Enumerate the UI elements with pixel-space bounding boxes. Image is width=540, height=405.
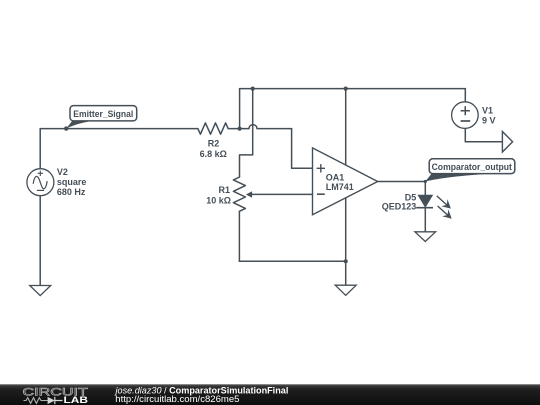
V2 plus mark — [38, 171, 43, 176]
op-amp minus sign — [317, 193, 325, 195]
svg-text:LAB: LAB — [64, 395, 89, 405]
ground for V2 — [30, 286, 51, 296]
svg-text:R2: R2 — [208, 138, 220, 148]
net flag Emitter_Signal box — [70, 106, 137, 121]
wire R1 wiper to minus input — [251, 193, 313, 195]
net flag Emitter_Signal tail — [66, 121, 94, 129]
svg-text:R1: R1 — [218, 185, 230, 195]
wire LED bottom lead — [424, 208, 426, 232]
svg-text:square: square — [57, 177, 87, 187]
wire LED top lead — [424, 182, 426, 196]
svg-text:6.8 kΩ: 6.8 kΩ — [200, 149, 227, 159]
LED D5 triangle — [418, 195, 432, 207]
resistor R1 (pot) — [233, 177, 245, 211]
potentiometer wiper arrow — [246, 191, 252, 197]
net flag Comparator_output tail — [425, 174, 489, 182]
wire top rail — [240, 88, 466, 90]
output flag triangle — [502, 132, 512, 153]
wire main horizontal with hop — [40, 125, 291, 129]
wire R1 bottom lead — [238, 211, 240, 261]
node bottom rail dot — [344, 259, 348, 263]
V2 minus mark — [37, 189, 44, 191]
wire rail drop to R2 junction — [239, 89, 241, 129]
svg-text:Emitter_Signal: Emitter_Signal — [73, 109, 133, 119]
op-amp OA1 body — [313, 148, 378, 215]
V1 plus sign — [461, 106, 470, 115]
ground for LED — [415, 232, 436, 242]
wire op-amp output — [378, 181, 426, 183]
ground mid (op-amp) — [335, 285, 356, 295]
resistor R2 — [198, 123, 228, 134]
node Emitter_Signal dot — [64, 126, 68, 130]
svg-text:LM741: LM741 — [326, 182, 354, 192]
svg-text:10 kΩ: 10 kΩ — [206, 195, 231, 205]
wire op-amp plus input — [292, 129, 313, 169]
wire V2 bottom lead — [39, 196, 41, 286]
V1 minus sign — [461, 120, 471, 122]
LED emission arrow 1 — [437, 196, 451, 209]
net flag Comparator_output box — [429, 159, 515, 174]
node rail dot at mid vertical — [344, 87, 348, 91]
wire V1 top lead — [464, 89, 466, 102]
source V2 body — [27, 169, 54, 196]
svg-text:V2: V2 — [57, 167, 68, 177]
svg-text:OA1: OA1 — [326, 172, 345, 182]
node Comparator_output dot — [424, 180, 427, 183]
op-amp plus sign — [317, 164, 325, 172]
wire mid vertical rail to ground — [345, 89, 347, 285]
logo resistor squiggle — [24, 398, 48, 404]
svg-text:Comparator_output: Comparator_output — [432, 162, 512, 172]
LED emission arrow 2 — [438, 206, 452, 219]
V2 sine wave — [33, 176, 47, 188]
svg-text:9 V: 9 V — [482, 116, 496, 126]
footer bar — [0, 384, 540, 405]
svg-text:680 Hz: 680 Hz — [57, 187, 86, 197]
node junction dot R2 output — [238, 127, 242, 131]
wire V1 bottom lead to flag — [465, 128, 502, 141]
wire bottom rail — [239, 260, 345, 262]
svg-text:QED123: QED123 — [382, 202, 417, 212]
wire rail drop to R1 with jog — [240, 89, 253, 177]
source V1 body — [452, 102, 479, 129]
logo diode symbol — [48, 397, 55, 404]
svg-text:V1: V1 — [482, 106, 493, 116]
wire V2 top lead — [39, 129, 41, 169]
svg-text:http://circuitlab.com/c826me5: http://circuitlab.com/c826me5 — [115, 394, 239, 405]
node rail dot at R1 drop — [251, 87, 255, 91]
LED cathode bar — [416, 207, 433, 209]
